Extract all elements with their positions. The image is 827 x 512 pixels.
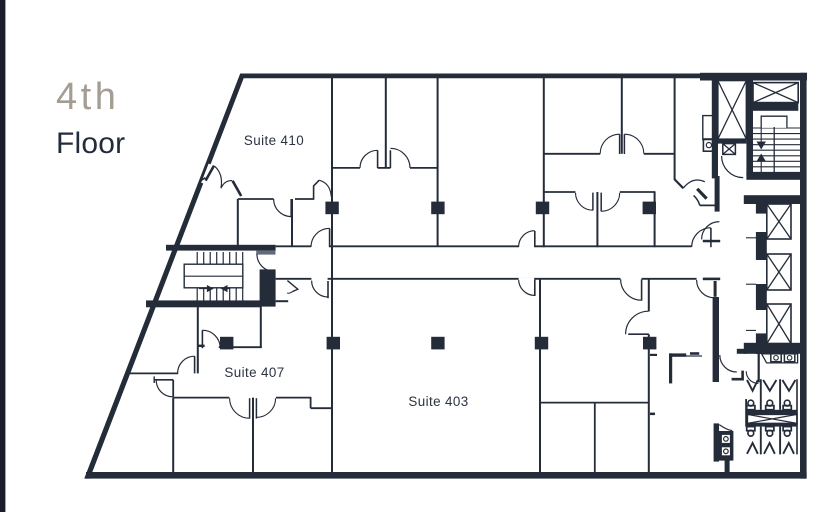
sink counter (womens) xyxy=(762,354,798,363)
door leaf x=714 (corridor SE) xyxy=(714,281,717,297)
wall: corridor south y=279 seg2 xyxy=(328,278,540,280)
door swing arc: office B door xyxy=(600,134,619,153)
wall: corridor north y=246 seg2 xyxy=(330,245,519,247)
wall: lobby west x=715-720 upper xyxy=(715,176,720,212)
door leaf x=641.6 xyxy=(641,279,643,300)
door swing arc: office C door xyxy=(624,134,643,153)
door leaf x=194.6 xyxy=(194,356,196,373)
wall: x=261 under-stair room east xyxy=(260,307,262,348)
wall: corridor south y=279 seg4 xyxy=(642,278,697,280)
pier between elevator doors 2 xyxy=(756,284,767,310)
door swing arc: corridor north door 3 (to elevator lobby) xyxy=(692,228,711,247)
door swing arc: center room left door xyxy=(576,193,593,210)
east stair landing rail xyxy=(761,116,787,128)
door swing arc: center room right door xyxy=(601,193,620,212)
toilet 1 (upper) xyxy=(747,400,755,410)
stair door leaf xyxy=(256,251,275,255)
door swing arc: east room door xyxy=(626,311,649,334)
floor title: 4th xyxy=(56,76,119,119)
building outer wall: right edge xyxy=(800,73,807,479)
double entry door on slanted wall (petal leaves) xyxy=(206,166,214,181)
east stair arrows xyxy=(757,128,765,148)
door jamb stub y=345 xyxy=(198,345,204,347)
svg-text:Suite 407: Suite 407 xyxy=(224,365,284,380)
wall: y=403 south rooms xyxy=(540,402,649,404)
wall: y=168 center pillar xyxy=(378,167,391,169)
wall: y=373 west room south xyxy=(127,372,179,374)
restroom west wall piece xyxy=(745,399,747,427)
wall: x=675 xyxy=(674,77,676,180)
door swing arc: double door right xyxy=(256,398,275,417)
wall stub y=279 near elevator lobby xyxy=(703,278,720,281)
elevator car 2 with X xyxy=(767,254,791,290)
wall jamb x=173 y=380-397 xyxy=(172,380,174,397)
door swing arc: corridor north door 2 xyxy=(519,231,535,247)
door swing arc: corridor south door 3 xyxy=(621,279,642,300)
wall: core west thick x=712 upper xyxy=(712,80,718,178)
elevator call jamb line 1 xyxy=(746,237,756,239)
wall: x=253 room divider xyxy=(252,398,254,472)
door at Suite 410 SW corner (bent leaf) xyxy=(295,198,314,200)
wall: x=540 Suite 403 east of big room xyxy=(539,279,541,472)
door swing arc: double door left xyxy=(230,398,250,418)
stair landing rail (west stairwell) xyxy=(184,264,243,288)
door swing arc: lobby west door xyxy=(702,222,720,240)
wall: y=408 jog segment xyxy=(311,407,332,409)
restroom entry door leaf xyxy=(737,349,747,354)
elevator call jamb line 3 xyxy=(746,329,756,331)
door leaf x=329.6 xyxy=(329,228,331,247)
door leaf x=710.9 xyxy=(710,228,712,247)
door opening in slanted wall xyxy=(201,164,214,185)
wall: corridor north y=246 seg3 xyxy=(535,245,692,247)
door leaf x=534.8 south xyxy=(534,279,536,296)
building outer wall: slanted west edge xyxy=(84,74,245,479)
wall: x=622 divider xyxy=(621,77,623,154)
small duct with X xyxy=(723,144,736,155)
door swing arc: corridor south door 1 xyxy=(312,281,328,297)
door swing arc: corridor south door 4 xyxy=(697,280,715,298)
column at (431,202) xyxy=(431,202,444,215)
door swing arc: corridor north door 1 xyxy=(311,228,330,247)
wall: x=173 bottom-left room east xyxy=(172,398,174,472)
door leaf x=256.4 xyxy=(255,398,257,418)
column at (643,202) xyxy=(643,202,656,215)
wall: y=398 seg2 xyxy=(276,397,311,399)
wall: x=198 under-stair room west xyxy=(197,307,199,373)
wall: y=205 vestibule south xyxy=(700,204,718,206)
shaft: duct with X brace (tall) xyxy=(718,81,747,140)
wall: x=238 room divider xyxy=(237,199,239,246)
door swing arc: inner vestibule door xyxy=(746,371,758,383)
column at (431,337) xyxy=(431,337,444,350)
door leaf x=601 xyxy=(600,193,602,212)
svg-text:Suite 403: Suite 403 xyxy=(408,394,468,409)
left page edge black bar xyxy=(0,0,5,512)
wall: y=199 segment west xyxy=(238,198,274,200)
column at (220,337) xyxy=(220,337,233,350)
wall: y=398 seg1 xyxy=(173,397,229,399)
door swing arc: left office door xyxy=(360,150,378,168)
building outer wall: bottom edge xyxy=(86,472,807,479)
wall: thick divider x=746-753 xyxy=(746,81,753,176)
door leaf x=624.4 xyxy=(623,134,625,154)
door leaf x=249.6 xyxy=(249,398,251,418)
wall-mounted fixture left of core xyxy=(703,116,716,152)
column at (535,337) xyxy=(535,337,548,350)
column at (327,337) xyxy=(327,337,340,350)
wall: y=168 right segment xyxy=(410,167,438,169)
east stair center divider xyxy=(773,127,775,173)
wall: x=655 to corridor xyxy=(654,192,656,247)
wall: elevator bank north band xyxy=(744,195,800,204)
wall: y=154 seg2 xyxy=(644,153,675,155)
toilet 2 (upper) xyxy=(766,400,774,410)
wall stub y=355 xyxy=(650,354,657,356)
building outer wall: top-right core edge xyxy=(700,73,807,81)
opening: corridor south door 2 gap xyxy=(519,278,535,281)
door leaf: left door of office pair xyxy=(377,150,379,168)
wall: x=544 full height xyxy=(543,77,545,247)
wall band below tall shaft xyxy=(712,139,747,143)
door swing arc: under-stair room west door xyxy=(202,330,220,348)
wall band below NE shaft xyxy=(753,103,798,111)
wall: x=292 room divider xyxy=(291,199,293,246)
elevator call jamb line 2 xyxy=(746,283,756,285)
door leaf x=328 xyxy=(327,281,329,298)
stall right boundary x=797 xyxy=(796,379,798,454)
door swing arc: small office door xyxy=(274,199,292,217)
door swing arc: corridor south door 2 xyxy=(519,279,535,295)
column at (643,337) xyxy=(643,337,656,350)
stair direction arrows (west) xyxy=(199,286,213,292)
column at (325,202) xyxy=(325,202,338,215)
upper stall partitions xyxy=(760,379,762,410)
toilet 3 (upper) xyxy=(783,400,791,410)
wall band below east stairs xyxy=(746,173,806,180)
wall: y=154 seg1 xyxy=(544,153,600,155)
elevator car 1 with X xyxy=(767,204,791,239)
wall stub y=241 near elevator lobby xyxy=(703,240,720,243)
wall stub y=413 xyxy=(650,413,655,416)
door leaf y=380 horizontal xyxy=(154,379,173,381)
toilet 4 (lower) xyxy=(747,427,755,437)
svg-text:Suite 410: Suite 410 xyxy=(244,133,304,148)
door swing arc: core access door xyxy=(722,156,744,178)
wall: Suite 410 interior wall y=168 (left segment) xyxy=(332,167,360,169)
wall stub below mens sink xyxy=(725,460,730,472)
partially open door leaf near x=287 xyxy=(287,281,297,292)
wall: x=649 seg below door xyxy=(648,334,650,472)
stair door swing arc xyxy=(257,254,275,272)
door swing arc: west room door xyxy=(178,356,195,373)
wall: Suite 410 east wall x=332 xyxy=(331,77,333,246)
toilet 5 (lower) xyxy=(766,427,774,437)
pier between elevator doors 0 xyxy=(756,203,767,213)
sink 2 xyxy=(784,354,794,362)
wall: x=712-719 south of corridor xyxy=(713,297,719,382)
plumbing chase wall with X xyxy=(747,410,798,427)
wall: x=758 vestibule east xyxy=(758,354,760,383)
sink 1 xyxy=(771,354,781,362)
wall: y=347 under-stair room south xyxy=(219,346,262,348)
building outer wall: top edge xyxy=(240,74,705,79)
wall stub y=301 east of stair block xyxy=(276,300,289,302)
stair rail mid line xyxy=(184,275,243,277)
wall: elevator bank south band xyxy=(744,343,800,354)
elevator car 3 with X xyxy=(767,304,791,344)
floor title: Floor xyxy=(56,127,125,161)
door leaf x=202 xyxy=(201,330,203,348)
wall: corridor south y=279 seg3 xyxy=(540,278,620,280)
wall: office east wall x=437.6 xyxy=(437,77,439,246)
wall: Suite 403 west x=332 (corridor to bottom) xyxy=(331,246,333,472)
lower stall partitions xyxy=(760,427,762,455)
toilet 6 (lower) xyxy=(783,427,791,437)
upper stall doors (V marks) xyxy=(747,380,758,391)
stair treads (west stairwell) xyxy=(197,252,243,301)
wall: corridor north y=246 seg1 xyxy=(276,245,311,247)
door swing arc: vestibule lower door xyxy=(156,380,173,397)
door leaf at x=291 xyxy=(290,199,292,217)
wall: x=649 seg above door xyxy=(648,279,650,311)
column block at stair east end xyxy=(260,269,276,306)
door leaf x=619.6 xyxy=(619,134,621,154)
pier between elevator doors 1 xyxy=(756,232,767,260)
shaft: elevator machine room with X (NE) xyxy=(753,83,798,103)
door leaf y=334 horizontal xyxy=(628,333,649,335)
column at (536,202) xyxy=(536,202,549,215)
inner vestibule door (bent leaf) xyxy=(732,371,743,380)
diagonal wall + door near elevator lobby xyxy=(675,179,684,188)
door swing arc: restroom entry xyxy=(720,355,737,372)
wall stub left of mens room xyxy=(690,352,699,355)
stairwell south thick wall xyxy=(146,300,262,307)
wall: x=597 divider to corridor xyxy=(596,192,598,247)
door leaf: right door of office pair xyxy=(389,150,391,168)
door swing arc: right office door xyxy=(390,148,410,168)
wall: corridor south y=279 seg1 xyxy=(276,278,312,280)
door leaf x=534.8 xyxy=(534,231,536,247)
mens sink unit housing xyxy=(714,423,734,461)
wall: y=192 seg2 xyxy=(620,191,656,193)
wall: x=595 divider below xyxy=(594,403,596,472)
stairwell north thick wall xyxy=(166,245,276,251)
wall: y=192 seg1 xyxy=(544,191,576,193)
door arc above mens sink xyxy=(719,425,732,431)
door leaf x=593 xyxy=(592,193,594,211)
east stairwell treads xyxy=(753,128,800,172)
wall: office divider x=386 (top band) xyxy=(385,77,387,168)
lower stall doors (V marks) xyxy=(747,443,758,454)
pier between elevator doors 3 xyxy=(756,333,767,354)
wall jog vertical x=311 xyxy=(310,398,312,409)
desk furniture (L-shape) xyxy=(669,353,702,383)
